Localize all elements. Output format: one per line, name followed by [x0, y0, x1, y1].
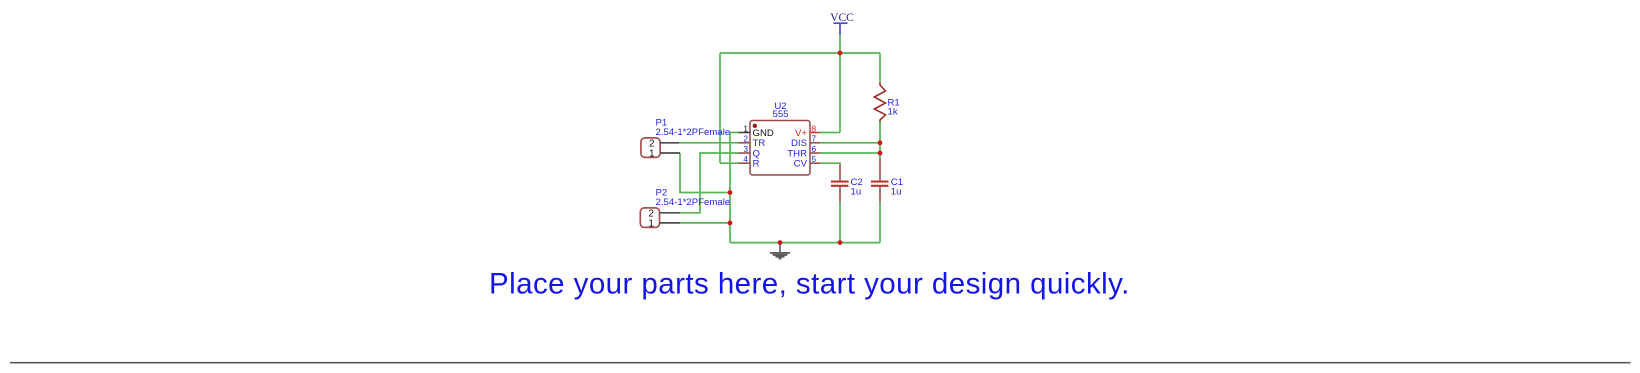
- wire CV to C2: [820, 162, 840, 165]
- U2 pin 3 stub: [739, 152, 751, 154]
- svg-text:1: 1: [649, 149, 655, 160]
- wire THR to C1 node: [820, 152, 880, 154]
- svg-text:2: 2: [743, 134, 748, 144]
- svg-text:555: 555: [772, 109, 788, 120]
- wire top rail: [720, 52, 880, 54]
- wire P1 pin2 to TR: [679, 142, 739, 144]
- svg-text:7: 7: [812, 134, 817, 144]
- wire R1 bottom node segment: [879, 122, 881, 153]
- resistor R1: [874, 82, 885, 122]
- svg-text:3: 3: [743, 144, 748, 154]
- wire left loop vertical: [719, 53, 721, 163]
- wire bottom rail: [730, 242, 880, 244]
- ground symbol stem: [779, 243, 781, 253]
- svg-text:VCC: VCC: [830, 11, 854, 24]
- svg-text:4: 4: [743, 154, 748, 164]
- U2 pin 4 stub: [739, 162, 751, 164]
- junction THR C1 node: [878, 151, 883, 156]
- wire Q to P2 pin2: [680, 153, 739, 213]
- P2 pin 2 stub: [660, 212, 681, 214]
- svg-text:1u: 1u: [851, 186, 862, 197]
- wire left loop to pin R: [720, 162, 739, 164]
- capacitor C1 lead top: [879, 158, 881, 181]
- svg-text:6: 6: [812, 144, 817, 154]
- VCC power symbol stem: [839, 23, 841, 34]
- capacitor C1 lead bottom: [879, 187, 881, 203]
- U2 pin 6 stub: [810, 152, 821, 154]
- svg-text:2.54-1*2PFemale: 2.54-1*2PFemale: [656, 127, 731, 138]
- wire VCC drop to top rail: [839, 35, 841, 54]
- junction C2 bottom rail: [838, 240, 843, 245]
- svg-text:1k: 1k: [888, 107, 898, 118]
- U2 pin 7 stub: [810, 142, 821, 144]
- U2 pin-1 marker dot: [753, 124, 757, 128]
- capacitor C2 plates: [831, 182, 849, 186]
- svg-text:1u: 1u: [891, 186, 902, 197]
- junction DIS R1 node: [878, 140, 883, 145]
- capacitor C2 lead bottom: [839, 187, 841, 203]
- VCC power symbol bar: [834, 22, 848, 24]
- junction top rail VCC: [838, 51, 843, 56]
- connector P1 body: [641, 138, 660, 158]
- P2 pin 1 stub: [660, 222, 681, 224]
- wire C1 bottom to rail: [879, 203, 881, 243]
- divider line: [10, 362, 1631, 364]
- svg-text:8: 8: [812, 123, 817, 133]
- wire GND net vertical: [730, 133, 739, 243]
- svg-text:CV: CV: [794, 159, 808, 170]
- capacitor C1 plates: [871, 182, 889, 186]
- wire P2 pin1 to GND: [680, 222, 730, 224]
- wire P1 pin1 down and right to GND: [680, 153, 730, 193]
- svg-text:R: R: [753, 159, 760, 170]
- wire V+ branch vertical: [839, 53, 841, 133]
- junction P1 pin1 GND: [728, 190, 733, 195]
- U2 pin 8 stub: [810, 132, 821, 134]
- ground symbol bars: [770, 253, 790, 259]
- wire DIS to R1 node: [820, 142, 880, 144]
- svg-text:Place your parts here, start y: Place your parts here, start your design…: [489, 268, 1130, 301]
- junction P2 pin1 GND: [728, 221, 733, 226]
- U2 pin 5 stub: [810, 162, 821, 164]
- U2 pin 1 stub: [739, 132, 751, 134]
- P1 pin 1 stub: [660, 152, 680, 154]
- svg-text:1: 1: [648, 218, 654, 229]
- connector P2 body: [640, 208, 659, 228]
- wire R1 top: [879, 53, 881, 82]
- capacitor C2 lead top: [839, 164, 841, 181]
- svg-text:1: 1: [743, 123, 748, 133]
- svg-text:5: 5: [812, 154, 817, 164]
- wire V+ branch horizontal to pin 8: [820, 132, 840, 134]
- P1 pin 2 stub: [660, 142, 679, 144]
- wire C1 top lead: [879, 153, 881, 158]
- IC U2 555 timer body: [750, 121, 810, 176]
- wire C2 bottom to rail: [839, 203, 841, 243]
- svg-text:2.54-1*2PFemale: 2.54-1*2PFemale: [656, 197, 731, 208]
- junction ground bottom rail: [778, 240, 783, 245]
- U2 pin 2 stub: [739, 142, 751, 144]
